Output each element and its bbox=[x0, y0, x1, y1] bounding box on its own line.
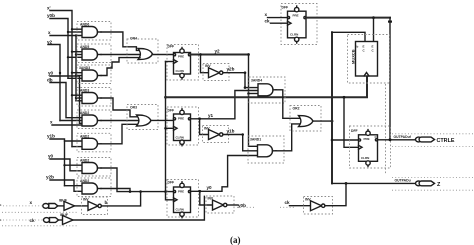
svg-text:MUXCB: MUXCB bbox=[351, 49, 356, 64]
svg-text:CTRLE: CTRLE bbox=[437, 138, 455, 144]
svg-text:y2: y2 bbox=[215, 49, 221, 54]
flip-flop DFF1 bbox=[167, 45, 199, 81]
wire net x mid bbox=[52, 124, 82, 126]
wire net y2 left bbox=[48, 45, 60, 121]
svg-text:y0b: y0b bbox=[47, 13, 55, 18]
node y0 input label bbox=[48, 71, 54, 76]
flip-flop DFF4 bbox=[350, 126, 391, 168]
wire ck row to right bbox=[73, 196, 204, 220]
inverter INV3 y0b bbox=[200, 191, 234, 213]
svg-text:PRE: PRE bbox=[178, 190, 184, 194]
and-gate AND5 (gate2) bbox=[77, 44, 111, 63]
flip-flop DFF3 bbox=[167, 180, 199, 218]
wire bus taps gate3 bbox=[68, 73, 82, 79]
svg-text:PRE: PRE bbox=[293, 14, 299, 18]
svg-text:(a): (a) bbox=[230, 235, 241, 245]
node y1b input label bbox=[47, 134, 55, 139]
wire bus taps gate6 bbox=[65, 141, 83, 147]
wire AND1 out to OR2 bbox=[276, 124, 300, 151]
svg-text:PRE: PRE bbox=[178, 55, 184, 59]
svg-text:CLRN: CLRN bbox=[290, 33, 298, 37]
wire right vertical to CTRLE junction bbox=[388, 18, 392, 140]
svg-text:3AND4: 3AND4 bbox=[251, 79, 262, 83]
and-gate AND6 (gate1) bbox=[77, 22, 111, 41]
svg-text:DFF: DFF bbox=[168, 109, 175, 113]
svg-text:OUTPADuf: OUTPADuf bbox=[394, 135, 412, 139]
svg-text:y0: y0 bbox=[48, 154, 54, 159]
node x input label bbox=[48, 30, 51, 35]
and-gate 3AND4 bbox=[244, 77, 285, 103]
caption (a) bbox=[230, 235, 241, 245]
or-gate OR2 bbox=[290, 106, 321, 132]
wire dashed border right bbox=[385, 84, 387, 175]
wire DFF2 Q y1 bbox=[191, 91, 259, 121]
svg-text:xʹ: xʹ bbox=[47, 5, 51, 11]
and-gate AND2 (gate5) bbox=[77, 110, 111, 129]
wire y2 tap to AND4 bbox=[247, 92, 258, 95]
pad IPAD2 bbox=[44, 218, 59, 223]
svg-text:OR3: OR3 bbox=[130, 106, 137, 110]
wire bus taps gate1 bbox=[68, 29, 82, 32]
and-gate AND2d (gate8) bbox=[77, 178, 111, 197]
flip-flop DFF2 bbox=[167, 107, 199, 146]
svg-text:3AND1: 3AND1 bbox=[250, 138, 261, 142]
svg-text:OUTPADu: OUTPADu bbox=[395, 179, 411, 183]
svg-text:CLRN: CLRN bbox=[361, 156, 369, 160]
node x top label bbox=[265, 12, 268, 17]
label OUTPAD2 bbox=[395, 179, 411, 183]
svg-text:y2b: y2b bbox=[46, 175, 54, 180]
and-gate 3AND3 (gate3) bbox=[77, 65, 111, 84]
svg-text:DFF: DFF bbox=[168, 181, 175, 185]
svg-text:x: x bbox=[265, 12, 268, 17]
svg-text:OR4: OR4 bbox=[130, 37, 137, 41]
wire gate4 to OR3 bbox=[101, 98, 138, 117]
wire clock vertical distribution bbox=[164, 62, 174, 200]
svg-text:DFF: DFF bbox=[168, 45, 175, 49]
wire INV4 out up to net Z bbox=[325, 183, 346, 205]
flip-flop DFF5 top bbox=[281, 4, 317, 45]
wire net y2b left bbox=[50, 180, 82, 191]
wire gate1 to OR4 bbox=[101, 32, 140, 50]
inverter INV4 bbox=[304, 197, 333, 215]
svg-text:b: b bbox=[105, 200, 108, 205]
and-gate AND3 (gate4) bbox=[77, 88, 111, 107]
inverter INV2 y1b bbox=[200, 119, 229, 143]
wire bus taps gate7 bbox=[65, 164, 83, 166]
node y2b input label bbox=[46, 175, 54, 180]
wire y2b to AND4 bbox=[223, 67, 258, 88]
wire clock horizontal from MUX bbox=[166, 76, 368, 97]
svg-text:CLRN: CLRN bbox=[176, 208, 184, 212]
svg-text:y1b: y1b bbox=[47, 134, 55, 139]
node x bottom-left mark bbox=[0, 200, 33, 207]
node ck bottom-left label bbox=[0, 218, 35, 223]
svg-text:ck: ck bbox=[285, 200, 291, 205]
wire OR4 out to DFF1 D bbox=[153, 54, 174, 56]
svg-text:PRE: PRE bbox=[178, 117, 184, 121]
svg-text:ck: ck bbox=[265, 19, 271, 24]
wire leader row1 bbox=[3, 205, 42, 207]
pad OPAD2 Z bbox=[392, 177, 474, 190]
wire DFF5 Q to right bbox=[306, 16, 390, 19]
wire net y0 left bbox=[50, 76, 80, 123]
svg-text:CLRN: CLRN bbox=[176, 136, 184, 140]
wire DFF4 Q to OPAD1 bbox=[378, 138, 416, 141]
wire gate3 to OR3 bbox=[101, 58, 140, 76]
or-gate OR3 bbox=[127, 105, 158, 130]
wire y2 vertical feedback bbox=[247, 53, 257, 146]
wire leader row2 bbox=[3, 219, 43, 221]
wire bus taps gate4 bbox=[72, 95, 82, 101]
svg-text:y1b: y1b bbox=[227, 129, 235, 134]
pad OPAD1 CTRLE bbox=[392, 134, 474, 147]
junction bus dots bbox=[59, 28, 77, 166]
wire MUX clock out to DFF4 ck bbox=[343, 96, 359, 147]
node y0 lower input label bbox=[48, 154, 54, 159]
svg-text:x: x bbox=[30, 200, 33, 205]
wire gate8 join bbox=[101, 189, 130, 192]
wire net Z horizontal bbox=[332, 182, 416, 185]
label OUTPAD1 bbox=[394, 135, 412, 139]
svg-text:DFF: DFF bbox=[282, 6, 289, 10]
wire gate7 to DFF3 D bbox=[101, 168, 174, 192]
wire ck into INV4 bbox=[290, 205, 311, 207]
svg-text:y0: y0 bbox=[207, 185, 213, 190]
node x mid input label bbox=[50, 120, 53, 125]
wire gate5 to OR3 bbox=[101, 120, 138, 122]
buffer IBUF1 bbox=[58, 199, 88, 211]
svg-text:db: db bbox=[47, 78, 53, 83]
wire bus taps gate5 bbox=[60, 121, 82, 124]
or-gate OR4 bbox=[127, 37, 158, 64]
wire net db bbox=[50, 83, 82, 118]
wire OR2 out to net vertical bbox=[314, 120, 334, 123]
wire net y0 lower bbox=[50, 159, 82, 171]
node ck top label bbox=[265, 19, 271, 24]
svg-text:y1: y1 bbox=[208, 113, 214, 118]
wire bus taps gate8 bbox=[65, 185, 83, 187]
svg-text:CLRN: CLRN bbox=[176, 69, 184, 73]
wire net x' bbox=[50, 11, 72, 147]
svg-text:y2b: y2b bbox=[227, 67, 235, 72]
svg-text:b: b bbox=[357, 45, 359, 49]
node y2 input label bbox=[47, 40, 53, 45]
wire AND4 out to OR2 bbox=[276, 90, 300, 119]
svg-text:y0b: y0b bbox=[238, 203, 246, 208]
pad IPAD1 bbox=[43, 204, 58, 209]
inverter INV1 y2b bbox=[201, 55, 230, 81]
and-gate AND2c (gate7) bbox=[77, 158, 111, 177]
wire net E to DFF4 D bbox=[331, 139, 359, 142]
wire net y1b left bbox=[50, 139, 65, 186]
wire gate2 to OR4 bbox=[101, 54, 140, 56]
and-gate AND2b (gate6) bbox=[77, 133, 111, 152]
svg-text:x: x bbox=[50, 120, 53, 125]
wire gate6 to OR3 bbox=[101, 124, 138, 144]
svg-text:PRE: PRE bbox=[364, 137, 370, 141]
wire DFF3 Q y0 bbox=[191, 156, 258, 193]
wire net y0b bbox=[50, 19, 68, 79]
wire y0b output label bbox=[227, 203, 246, 208]
wire DFF1 Q y2 bbox=[191, 49, 249, 56]
wire net x bbox=[50, 36, 82, 101]
node ck bottom-right label bbox=[285, 200, 291, 205]
svg-text:OR2: OR2 bbox=[293, 107, 300, 111]
svg-text:y0: y0 bbox=[48, 71, 54, 76]
node db input label bbox=[47, 78, 53, 83]
wire x to DFF5 D bbox=[268, 17, 288, 19]
wire INV5 out to DFF3 D bbox=[102, 192, 141, 206]
buffer IBUF2 bbox=[59, 213, 74, 225]
wire OR3 out to DFF2 D bbox=[151, 119, 174, 121]
and-gate 3AND1 bbox=[248, 136, 284, 163]
wire bus taps gate2 bbox=[68, 52, 82, 58]
wire y1b to AND1 bbox=[223, 129, 258, 151]
svg-text:y2: y2 bbox=[47, 40, 53, 45]
inverter INV5 bbox=[82, 197, 108, 215]
junction D3 dots bbox=[129, 190, 167, 193]
wire net E top to MUX pin bbox=[332, 32, 365, 41]
node y0b input label bbox=[47, 13, 55, 18]
svg-text:DFF: DFF bbox=[351, 129, 358, 133]
wire ck to DFF5 C bbox=[271, 22, 288, 24]
wire net E vertical x332 bbox=[331, 32, 333, 183]
wire Q down to MUX pin2 bbox=[373, 18, 375, 42]
svg-text:x: x bbox=[48, 30, 51, 35]
wire dotted row guides bottom-left bbox=[2, 207, 296, 226]
mux M1 box bbox=[348, 35, 390, 84]
node x' input label bbox=[47, 5, 51, 11]
